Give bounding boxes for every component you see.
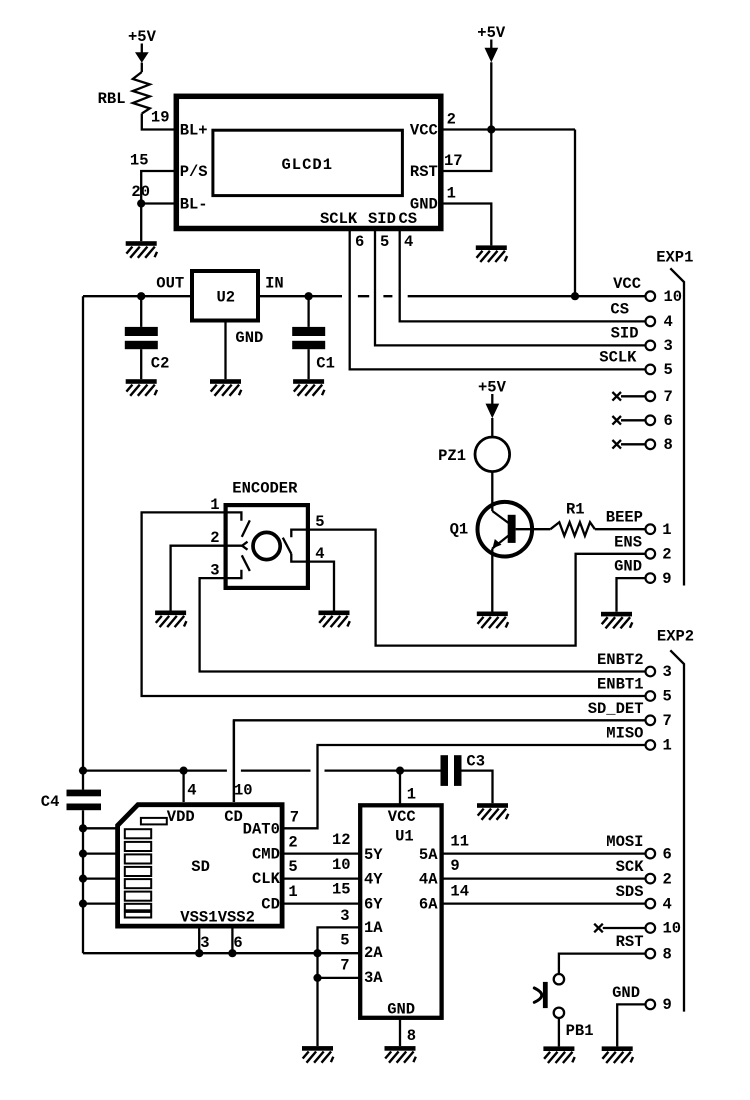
svg-text:MISO: MISO — [606, 725, 643, 743]
wire VCC net with crossover gaps — [260, 295, 645, 297]
pin EXP1-6 — [646, 416, 656, 426]
ground (EXP2 GND) — [602, 1046, 633, 1063]
pin EXP2-5 — [646, 691, 656, 701]
wire 3.3V rail bus with crossover gaps — [83, 769, 441, 771]
ground (EXP1 GND) — [601, 612, 632, 629]
wire VCC pin 2 — [441, 128, 575, 130]
pin EXP2-10 — [646, 923, 656, 933]
svg-text:P/S: P/S — [180, 163, 208, 181]
svg-text:CMD: CMD — [252, 845, 280, 863]
svg-text:4Y: 4Y — [364, 871, 383, 889]
svg-text:1: 1 — [663, 737, 672, 755]
junction ground bus / 1A-3A — [313, 949, 321, 957]
svg-text:17: 17 — [444, 152, 463, 170]
svg-text:5: 5 — [315, 513, 324, 531]
svg-text:1A: 1A — [364, 919, 383, 937]
svg-text:U1: U1 — [395, 828, 414, 846]
svg-text:3: 3 — [340, 907, 349, 925]
power +5V symbol (top left) — [128, 28, 157, 72]
svg-text:EXP2: EXP2 — [657, 628, 694, 646]
svg-text:C2: C2 — [151, 354, 170, 372]
svg-text:19: 19 — [151, 109, 170, 127]
wire left rail stub row 1 — [83, 827, 118, 829]
junction VSS1 — [195, 949, 203, 957]
encoder wiper contact lower — [242, 555, 250, 571]
svg-text:BL+: BL+ — [180, 121, 208, 139]
pin EXP1-5 — [646, 365, 656, 375]
svg-text:MOSI: MOSI — [606, 833, 643, 851]
pin EXP2-1 — [646, 740, 656, 750]
SD card contact fingers — [125, 829, 151, 917]
svg-text:8: 8 — [407, 1027, 416, 1045]
svg-text:Q1: Q1 — [450, 521, 469, 539]
ground (Q1 emitter) — [477, 612, 508, 629]
wire RST to PB1 — [559, 954, 646, 974]
svg-text:RST: RST — [410, 163, 438, 181]
junction P/S BL- — [137, 199, 145, 207]
svg-text:C4: C4 — [41, 793, 60, 811]
wire encoder pin 5 to ENS — [308, 530, 645, 646]
svg-text:CD: CD — [224, 808, 243, 826]
junction C1 — [305, 292, 313, 300]
svg-text:1: 1 — [662, 521, 671, 539]
wire R1 to BEEP — [595, 528, 646, 530]
svg-text:6: 6 — [663, 845, 672, 863]
svg-text:6: 6 — [664, 412, 673, 430]
wire P/S pin 15 — [141, 171, 176, 204]
encoder wiper contact upper — [242, 520, 250, 537]
capacitor C2 — [125, 296, 158, 379]
junction SD VDD — [180, 767, 188, 775]
pin EXP1-8 — [646, 440, 656, 450]
svg-text:1: 1 — [288, 883, 297, 901]
pin EXP1-2 — [646, 549, 656, 559]
svg-text:5: 5 — [663, 688, 672, 706]
ground (encoder pin 4) — [319, 611, 350, 628]
svg-text:9: 9 — [663, 996, 672, 1014]
svg-text:20: 20 — [131, 183, 150, 201]
wire EXP1 GND pin to ground — [617, 578, 646, 612]
svg-text:7: 7 — [290, 809, 299, 827]
encoder pin 2 stub — [226, 542, 248, 550]
svg-text:5Y: 5Y — [364, 846, 383, 864]
wire BL- pin 20 — [141, 202, 176, 204]
pin EXP2-2 — [646, 874, 656, 884]
wire left rail stub row 2 — [83, 852, 118, 854]
svg-text:VCC: VCC — [613, 275, 641, 293]
wire encoder pin 1 to ENBT1 — [142, 512, 646, 696]
svg-text:CD: CD — [261, 895, 280, 913]
ground (GLCD GND) — [476, 245, 507, 262]
wire +5V rail down to VCC net — [574, 130, 576, 297]
svg-text:7: 7 — [340, 956, 349, 974]
power +5V symbol (buzzer) — [478, 379, 507, 438]
svg-text:6: 6 — [355, 233, 364, 251]
capacitor C4 — [67, 790, 102, 954]
wire encoder pin 2 to ground — [171, 546, 226, 611]
power +5V symbol (top right) — [477, 24, 506, 130]
wire RBL to BL+ pin 19 — [142, 114, 176, 130]
svg-text:14: 14 — [450, 883, 469, 901]
svg-text:+5V: +5V — [128, 28, 157, 46]
svg-text:2: 2 — [288, 833, 297, 851]
wire GND pin 1 — [441, 204, 491, 246]
wire encoder pin 3 to ENBT2 — [200, 578, 646, 671]
wire 3A — [318, 977, 361, 979]
svg-text:3: 3 — [210, 562, 219, 580]
pin EXP1-9 — [646, 573, 656, 583]
wire VSS2 pin 6 — [231, 926, 233, 953]
junction +5V rail / VCC net — [571, 292, 579, 300]
encoder pin 4 stub — [291, 554, 308, 562]
pushbutton PB1 — [534, 974, 564, 1018]
rotary encoder body — [226, 505, 308, 588]
voltage regulator U2 — [192, 271, 258, 321]
ground (encoder pin 2) — [155, 611, 186, 628]
svg-text:SCLK: SCLK — [599, 348, 637, 366]
junction C2 — [137, 292, 145, 300]
junction VSS2 — [228, 949, 236, 957]
pin labels SCLK SID CS — [320, 210, 417, 228]
svg-text:C3: C3 — [466, 752, 485, 770]
svg-text:10: 10 — [663, 920, 682, 938]
wire SD CD pin 10 — [233, 720, 235, 802]
wire to ground — [140, 204, 142, 242]
svg-text:3: 3 — [663, 663, 672, 681]
pin EXP2-7 — [646, 716, 656, 726]
resistor R1 — [550, 522, 595, 536]
encoder pin 3 stub — [226, 570, 242, 578]
ground (C2) — [126, 379, 157, 396]
svg-text:6: 6 — [233, 934, 242, 952]
wire U1 GND pin 8 — [399, 1018, 401, 1046]
svg-text:RST: RST — [616, 933, 644, 951]
svg-text:+5V: +5V — [477, 24, 506, 42]
svg-text:2A: 2A — [364, 944, 383, 962]
encoder knob circle — [253, 532, 280, 559]
svg-text:10: 10 — [332, 856, 351, 874]
svg-text:10: 10 — [234, 781, 253, 799]
pin EXP2-9 — [646, 1000, 656, 1010]
svg-text:ENBT2: ENBT2 — [597, 651, 644, 669]
pin EXP2-3 — [646, 667, 656, 677]
junction row 2 — [79, 850, 87, 858]
wire SID pin 5 — [375, 231, 645, 345]
no-connect X pin 10 — [594, 924, 645, 933]
svg-text:ENS: ENS — [614, 533, 642, 551]
svg-text:5: 5 — [380, 233, 389, 251]
resistor RBL — [133, 72, 150, 114]
svg-text:GND: GND — [614, 558, 642, 576]
svg-text:+5V: +5V — [478, 379, 507, 397]
display GLCD1 screen box — [213, 130, 403, 195]
svg-text:CLK: CLK — [252, 870, 281, 888]
wire RST pin 17 tied to +5V — [441, 130, 491, 172]
wire CLK to U1 4Y — [282, 877, 360, 879]
svg-text:VSS2: VSS2 — [218, 909, 255, 927]
svg-text:5: 5 — [340, 932, 349, 950]
capacitor C1 — [292, 296, 325, 379]
svg-text:2: 2 — [447, 111, 456, 129]
svg-text:RBL: RBL — [98, 90, 126, 108]
svg-text:2: 2 — [663, 870, 672, 888]
pin EXP1-1 — [646, 524, 656, 534]
pin EXP1-4 — [646, 317, 656, 327]
wire ground bus — [83, 952, 360, 954]
no-connect X pin 7 — [612, 392, 645, 401]
svg-text:8: 8 — [664, 436, 673, 454]
wire VSS1 pin 3 — [198, 926, 200, 953]
svg-text:3: 3 — [664, 337, 673, 355]
pin EXP2-8 — [646, 949, 656, 959]
junction +5V VCC — [487, 125, 495, 133]
svg-text:9: 9 — [450, 857, 459, 875]
svg-text:PZ1: PZ1 — [438, 447, 466, 465]
svg-text:15: 15 — [332, 881, 351, 899]
svg-text:ENCODER: ENCODER — [232, 479, 298, 497]
SD card top contact pad — [141, 818, 167, 825]
buffer U1 — [360, 805, 441, 1018]
svg-text:4: 4 — [664, 313, 673, 331]
svg-text:4: 4 — [187, 781, 196, 799]
svg-text:CS: CS — [399, 210, 418, 228]
svg-text:SID: SID — [368, 210, 396, 228]
svg-text:GND: GND — [612, 984, 640, 1002]
svg-text:5A: 5A — [419, 846, 438, 864]
wire SD_DET — [234, 720, 646, 802]
ground (C3) — [477, 803, 508, 820]
svg-text:8: 8 — [663, 945, 672, 963]
junction 3A — [313, 974, 321, 982]
svg-text:DAT0: DAT0 — [243, 821, 280, 839]
pin EXP2-6 — [646, 849, 656, 859]
svg-text:BL-: BL- — [180, 195, 208, 213]
svg-text:VSS1: VSS1 — [180, 909, 217, 927]
svg-text:OUT: OUT — [156, 275, 184, 293]
svg-text:11: 11 — [450, 832, 469, 850]
svg-text:CS: CS — [610, 300, 629, 318]
junction row 3 — [79, 875, 87, 883]
svg-text:VDD: VDD — [167, 808, 195, 826]
svg-text:BEEP: BEEP — [606, 509, 643, 527]
capacitor C3 — [441, 755, 493, 803]
pin EXP1-10 — [646, 291, 656, 301]
svg-text:PB1: PB1 — [566, 1022, 594, 1040]
junction row 4 — [79, 900, 87, 908]
svg-text:GLCD1: GLCD1 — [282, 156, 334, 174]
svg-text:6Y: 6Y — [364, 895, 383, 913]
svg-text:GND: GND — [387, 1001, 415, 1019]
pin EXP1-7 — [646, 392, 656, 402]
junction U1 VCC — [396, 767, 404, 775]
svg-text:SID: SID — [611, 324, 639, 342]
connector EXP1 bracket — [670, 268, 684, 585]
svg-text:15: 15 — [130, 152, 149, 170]
svg-text:4: 4 — [404, 233, 413, 251]
wire PB1 to ground — [558, 1018, 560, 1046]
svg-text:4: 4 — [663, 895, 672, 913]
wire 1A — [318, 927, 361, 1046]
wire SCLK pin 6 — [350, 231, 646, 369]
wire CS pin 4 — [400, 231, 646, 321]
SD card body — [118, 805, 283, 926]
no-connect X pin 6 — [612, 416, 645, 425]
wire U2 GND pin — [224, 321, 226, 380]
svg-text:SD_DET: SD_DET — [588, 700, 644, 718]
pin EXP1-3 — [646, 341, 656, 351]
ground (U2) — [210, 379, 241, 396]
svg-text:R1: R1 — [566, 500, 585, 518]
encoder pin 5 stub — [291, 530, 308, 538]
wire U1 VCC pin 1 — [399, 771, 401, 806]
wire Q1 base — [516, 528, 551, 530]
svg-text:6A: 6A — [419, 895, 438, 913]
wire CMD to U1 5Y — [282, 852, 360, 854]
ground (1A 3A) — [302, 1046, 333, 1063]
ground (C1) — [293, 379, 324, 396]
wire 3.3V rail down left side — [82, 296, 84, 789]
svg-text:SCLK: SCLK — [320, 210, 358, 228]
transistor Q1 — [478, 502, 533, 557]
svg-text:4A: 4A — [419, 871, 438, 889]
svg-text:1: 1 — [447, 185, 456, 203]
svg-text:GND: GND — [235, 329, 263, 347]
svg-text:IN: IN — [265, 275, 284, 293]
wire encoder pin 4 to ground — [308, 562, 334, 611]
wire Q1 emitter to ground — [491, 549, 493, 612]
svg-text:EXP1: EXP1 — [656, 249, 693, 267]
svg-text:9: 9 — [662, 570, 671, 588]
wire EXP2 GND pin to ground — [617, 1004, 645, 1046]
svg-text:5: 5 — [664, 361, 673, 379]
svg-text:7: 7 — [663, 712, 672, 730]
svg-text:12: 12 — [332, 831, 351, 849]
svg-text:2: 2 — [662, 546, 671, 564]
svg-text:SD: SD — [191, 858, 210, 876]
svg-text:VCC: VCC — [410, 121, 438, 139]
svg-text:C1: C1 — [316, 354, 335, 372]
wire CD to U1 6Y — [282, 902, 360, 904]
wire PZ1 to Q1 collector — [491, 472, 493, 511]
wire MOSI 5A — [442, 852, 646, 854]
ground (PB1) — [543, 1046, 574, 1063]
svg-text:ENBT1: ENBT1 — [597, 676, 644, 694]
wire U2 OUT — [83, 295, 190, 297]
encoder pin 1 stub — [226, 512, 242, 520]
svg-text:7: 7 — [664, 388, 673, 406]
svg-text:1: 1 — [407, 785, 416, 803]
display GLCD1 outer box — [176, 96, 441, 228]
svg-text:10: 10 — [664, 288, 683, 306]
wire SCK 4A — [442, 877, 646, 879]
svg-text:U2: U2 — [217, 289, 236, 307]
svg-text:SCK: SCK — [616, 858, 645, 876]
wire left rail stub row 3 — [83, 877, 118, 879]
wire left rail stub row 4 — [83, 902, 118, 904]
svg-text:1: 1 — [210, 496, 219, 514]
pin EXP2-4 — [646, 899, 656, 909]
no-connect X pin 8 — [612, 440, 645, 449]
ground (GLCD backlight) — [126, 241, 157, 258]
piezo buzzer PZ1 — [475, 437, 510, 472]
encoder push switch contact — [283, 538, 292, 554]
svg-text:VCC: VCC — [388, 808, 416, 826]
wire SD VDD pin 4 — [182, 771, 184, 802]
connector EXP2 bracket — [670, 650, 684, 1011]
svg-text:SDS: SDS — [616, 883, 644, 901]
svg-text:4: 4 — [315, 545, 324, 563]
svg-text:5: 5 — [288, 858, 297, 876]
wire SDS 6A — [442, 902, 646, 904]
svg-text:2: 2 — [210, 529, 219, 547]
junction row 1 — [79, 824, 87, 832]
junction 3.3V rail — [79, 767, 87, 775]
ground (U1) — [385, 1046, 416, 1063]
svg-text:3A: 3A — [364, 969, 383, 987]
wire MISO — [282, 745, 645, 828]
svg-text:3: 3 — [200, 934, 209, 952]
